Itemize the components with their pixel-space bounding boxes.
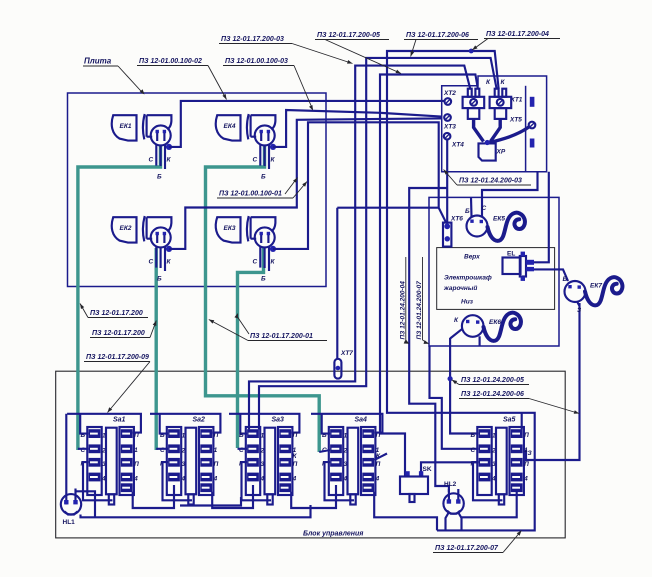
svg-text:Верх: Верх <box>464 254 480 261</box>
svg-text:Sa4: Sa4 <box>355 417 368 424</box>
wire EK3 to oven <box>273 122 446 249</box>
thermal switch SK <box>400 466 432 502</box>
wire SA1 B stub <box>80 414 88 434</box>
svg-text:К: К <box>501 79 506 86</box>
wire top bus Sa2 <box>150 414 220 434</box>
label w200-04 <box>472 31 560 50</box>
svg-text:С: С <box>149 259 154 266</box>
label w200-01 <box>209 313 327 341</box>
label w200-09 <box>84 354 150 413</box>
svg-text:К: К <box>167 157 172 164</box>
wire XT4 to XT6 <box>446 140 448 223</box>
svg-text:К: К <box>271 157 276 164</box>
wire XT7 branch <box>337 208 438 359</box>
wire teal EK1->SA1 <box>78 145 161 450</box>
svg-text:ХР: ХР <box>496 149 506 156</box>
lamp HL2 <box>443 481 463 514</box>
svg-text:К: К <box>271 259 276 266</box>
burner EK4 <box>216 114 276 181</box>
svg-text:ХТ4: ХТ4 <box>451 142 464 149</box>
svg-text:П: П <box>293 461 298 468</box>
wire fuse to XP thick Y <box>474 119 530 145</box>
svg-text:4: 4 <box>292 476 297 483</box>
wire teal EK3->SA3 <box>238 248 264 448</box>
wire EK7 to SA5 <box>526 303 580 460</box>
terminal XT6 <box>443 216 463 248</box>
burner EK1 <box>112 114 172 181</box>
node teal to SA3 C <box>238 448 248 450</box>
label w24-200-06 <box>459 391 579 414</box>
label w24-200-05 <box>452 377 529 385</box>
label SA3 K right <box>293 453 298 460</box>
switch Sa3 <box>239 417 298 505</box>
svg-text:С: С <box>471 447 476 454</box>
label w200-06 <box>404 32 478 57</box>
svg-text:К: К <box>293 453 298 460</box>
svg-text:Б: Б <box>471 432 476 439</box>
wire K wrap Sa1 <box>83 462 113 500</box>
svg-text:ХТ6: ХТ6 <box>450 216 463 223</box>
wire HL1 right pin <box>76 491 96 517</box>
wire HL2 to bottom <box>446 512 462 530</box>
node teal to SA1 C <box>78 448 89 450</box>
wire EK4 to XT3 <box>273 110 442 147</box>
svg-text:З: З <box>528 450 533 457</box>
wire bottom link <box>180 497 241 506</box>
svg-text:ХТ2: ХТ2 <box>443 90 456 97</box>
wire bus3 to SA3 <box>249 66 470 430</box>
svg-text:ПЗ 12-01.17.200-05: ПЗ 12-01.17.200-05 <box>317 32 380 39</box>
wire SK to SA5 pin K <box>421 462 478 477</box>
wire oven to SA5 pin B <box>448 338 479 434</box>
wire teal EK4->SA4 <box>206 145 320 452</box>
svg-text:Низ: Низ <box>461 299 474 306</box>
svg-text:4: 4 <box>213 476 218 483</box>
stove outer box (Плита) <box>68 93 327 287</box>
wire K wrap Sa4 <box>325 462 355 500</box>
svg-text:4: 4 <box>133 476 138 483</box>
node teal to SA4 C <box>319 450 330 452</box>
wire top bus Sa4 <box>311 414 382 434</box>
wire EK1 to XT2 <box>169 101 445 147</box>
svg-text:Б: Б <box>261 276 266 283</box>
oven inner box (Электрошкаф жарочный) <box>437 248 555 310</box>
wire interswitch <box>133 485 174 508</box>
svg-text:SK: SK <box>423 466 432 473</box>
svg-text:Плита: Плита <box>84 57 112 66</box>
lamp HL1 <box>61 489 81 527</box>
svg-text:Б: Б <box>261 174 266 181</box>
label SA4 K right <box>376 453 381 460</box>
svg-text:С: С <box>149 157 154 164</box>
wire EK2 to XT3 <box>169 118 442 249</box>
wire top bus Sa1 <box>67 414 141 433</box>
label w200-07 <box>433 531 522 553</box>
wire bus4 to SK <box>380 75 478 478</box>
control unit box (Блок управления) <box>56 371 566 538</box>
label w24-200-07 vertical <box>416 257 429 344</box>
terminal XT5 <box>509 117 535 129</box>
wire SA5 right drop <box>521 413 523 430</box>
switch Sa4 <box>322 417 381 505</box>
svg-text:ПЗ 12-01.24.200-04: ПЗ 12-01.24.200-04 <box>399 281 406 340</box>
label w24-200-04 vertical <box>399 257 409 344</box>
svg-text:ХТ3: ХТ3 <box>443 124 456 131</box>
svg-text:ПЗ 12-01.17.200-09: ПЗ 12-01.17.200-09 <box>86 354 149 361</box>
svg-text:Б: Б <box>157 174 162 181</box>
wire bus1 K pin to SA5 loop <box>387 49 535 531</box>
svg-text:4: 4 <box>375 476 380 483</box>
svg-text:ПЗ 12-01.24.200-05: ПЗ 12-01.24.200-05 <box>461 377 524 384</box>
svg-text:ПЗ 12-01.17.200-01: ПЗ 12-01.17.200-01 <box>250 333 313 340</box>
label w100-01 <box>217 178 307 199</box>
svg-text:П: П <box>214 461 219 468</box>
svg-text:ПЗ 12-01.17.200: ПЗ 12-01.17.200 <box>90 310 143 317</box>
svg-text:Б: Б <box>239 432 244 439</box>
svg-text:Б: Б <box>465 208 470 215</box>
svg-text:ПЗ 12-01.24.200-03: ПЗ 12-01.24.200-03 <box>459 178 522 185</box>
fuse block XT1 half <box>490 89 512 119</box>
wire interswitch <box>291 485 336 508</box>
wire SA5 bottom <box>462 492 517 518</box>
label w200-03 <box>219 36 353 64</box>
svg-text:С: С <box>253 259 258 266</box>
wire bus drop to HL1 <box>65 414 67 505</box>
svg-text:ПЗ 12-01.24.200-06: ПЗ 12-01.24.200-06 <box>461 391 524 398</box>
svg-text:жарочный: жарочный <box>443 284 477 292</box>
svg-text:ЕК7: ЕК7 <box>590 283 602 290</box>
svg-text:ЕК5: ЕК5 <box>493 216 505 223</box>
terminal XT2 <box>443 90 456 105</box>
svg-text:ПЗ 12-01.17.200-06: ПЗ 12-01.17.200-06 <box>406 32 469 39</box>
svg-text:ПЗ 12-01.17.200-07: ПЗ 12-01.17.200-07 <box>435 545 499 552</box>
wire SA4 bottom <box>374 492 437 531</box>
label w100-02 <box>137 58 227 100</box>
pin labels K K <box>486 79 506 86</box>
label block uprava <box>303 531 363 538</box>
svg-text:ПЗ 12-01.24.200-07: ПЗ 12-01.24.200-07 <box>416 281 423 340</box>
switch Sa5 <box>471 417 530 505</box>
switch Sa2 <box>160 417 219 505</box>
svg-text:К: К <box>454 317 459 324</box>
wire K wrap Sa3 <box>242 462 272 500</box>
heater EK6 <box>450 313 521 346</box>
svg-text:П: П <box>293 432 298 439</box>
terminal XT3 <box>443 114 456 130</box>
svg-text:ЕК2: ЕК2 <box>120 225 132 232</box>
label w24-200-03 <box>444 170 532 186</box>
wire top bus Sa3 <box>229 414 299 434</box>
switch Sa1 <box>81 417 140 505</box>
svg-text:ПЗ 12-01.00.100-02: ПЗ 12-01.00.100-02 <box>139 58 202 65</box>
burner EK2 <box>112 216 172 283</box>
label w200a <box>80 304 148 318</box>
wire K wrap Sa2 <box>163 462 193 500</box>
svg-text:С: С <box>253 157 258 164</box>
svg-text:ЕК3: ЕК3 <box>224 225 236 232</box>
svg-text:ЕК6: ЕК6 <box>489 319 501 326</box>
svg-text:К: К <box>167 259 172 266</box>
svg-text:П: П <box>134 461 139 468</box>
label XT1 <box>510 97 523 104</box>
terminal box XT (top right) <box>442 76 547 172</box>
svg-text:З: З <box>577 307 582 314</box>
oven outer box <box>429 197 559 346</box>
wire oven corner to SA5 pin C <box>430 346 479 449</box>
wire teal EK2->SA2 <box>154 248 157 450</box>
heater EK5 <box>465 172 538 241</box>
svg-text:П: П <box>376 461 381 468</box>
svg-text:ЕК4: ЕК4 <box>224 123 236 130</box>
svg-text:HL1: HL1 <box>63 519 76 526</box>
svg-text:HL2: HL2 <box>444 481 457 488</box>
svg-text:ХТ5: ХТ5 <box>509 117 522 124</box>
label Plita <box>83 57 145 95</box>
label w100-03 <box>223 58 313 111</box>
svg-text:ХТ7: ХТ7 <box>340 350 353 357</box>
wire bottom bus <box>81 505 311 517</box>
node teal to SA2 C <box>156 448 168 450</box>
label w200-05 <box>315 32 401 74</box>
connector XT7 <box>334 350 353 379</box>
terminal XT4 <box>444 133 465 149</box>
wire XT junction to HL2 <box>409 188 449 492</box>
svg-text:С: С <box>482 205 487 212</box>
svg-text:ПЗ 12-01.17.200: ПЗ 12-01.17.200 <box>92 330 145 337</box>
svg-text:Sa5: Sa5 <box>503 417 516 424</box>
svg-text:4: 4 <box>523 476 528 483</box>
svg-text:Электрошкаф: Электрошкаф <box>444 275 492 282</box>
svg-text:Sa3: Sa3 <box>272 417 285 424</box>
svg-text:П: П <box>524 461 529 468</box>
svg-text:1: 1 <box>214 447 218 454</box>
wire interswitch <box>212 485 253 508</box>
svg-text:П: П <box>524 432 529 439</box>
svg-text:Sa2: Sa2 <box>193 417 206 424</box>
svg-text:К: К <box>486 79 491 86</box>
fuse block XT2 half <box>463 89 485 119</box>
lamp EL <box>503 172 569 281</box>
svg-text:Б: Б <box>157 276 162 283</box>
svg-text:ПЗ 12-01.00.100-01: ПЗ 12-01.00.100-01 <box>219 191 282 198</box>
label w200b <box>90 321 156 338</box>
svg-text:Блок управления: Блок управления <box>303 531 363 538</box>
svg-text:ПЗ 12-01.17.200-03: ПЗ 12-01.17.200-03 <box>221 36 284 43</box>
svg-text:Sa1: Sa1 <box>113 417 126 424</box>
wire K wrap Sa5 <box>473 462 503 500</box>
wire bus2 K pin to SA3 <box>259 58 497 430</box>
svg-text:ПЗ 12-01.17.200-04: ПЗ 12-01.17.200-04 <box>486 31 549 38</box>
wire SA4 K diag <box>374 454 387 461</box>
svg-text:Б: Б <box>563 276 568 283</box>
burner EK3 <box>216 216 276 283</box>
svg-text:1: 1 <box>134 447 138 454</box>
label SA5 Z <box>528 450 533 457</box>
svg-text:ЕК1: ЕК1 <box>120 123 132 130</box>
connector XP <box>479 143 506 160</box>
heater EK7 <box>563 276 623 314</box>
svg-text:ПЗ 12-01.00.100-03: ПЗ 12-01.00.100-03 <box>225 58 288 65</box>
